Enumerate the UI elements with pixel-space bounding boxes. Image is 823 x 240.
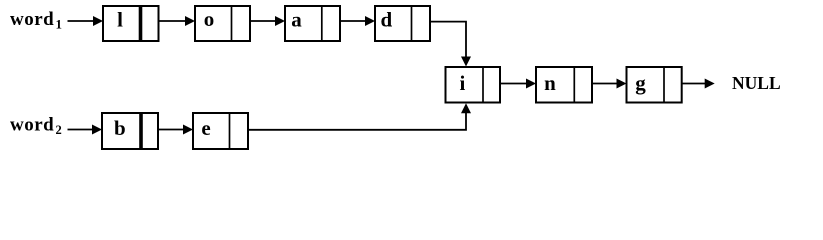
svg-text:d: d bbox=[380, 8, 392, 32]
wire word2 to node b bbox=[68, 125, 103, 135]
wire node d to node i (right then down) bbox=[430, 22, 471, 67]
svg-text:word: word bbox=[10, 9, 54, 30]
wire word1 to node l bbox=[68, 16, 104, 26]
svg-text:NULL: NULL bbox=[732, 73, 781, 93]
svg-text:o: o bbox=[204, 7, 215, 31]
wire node i to node n bbox=[500, 79, 536, 89]
svg-text:b: b bbox=[114, 116, 126, 140]
wire node l to node o bbox=[159, 16, 196, 26]
svg-text:g: g bbox=[635, 71, 646, 95]
svg-text:e: e bbox=[201, 116, 210, 140]
node a bbox=[285, 6, 340, 41]
node b bbox=[102, 113, 158, 149]
svg-text:1: 1 bbox=[56, 17, 63, 32]
wire node n to node g bbox=[592, 79, 627, 89]
label word1 bbox=[10, 9, 62, 32]
node e bbox=[193, 113, 248, 149]
node o bbox=[195, 6, 250, 41]
wire node b to node e bbox=[158, 125, 193, 135]
node l bbox=[103, 6, 159, 41]
wire node a to node d bbox=[340, 16, 375, 26]
label word2 bbox=[10, 115, 62, 137]
node i bbox=[446, 67, 501, 103]
svg-text:i: i bbox=[459, 71, 465, 95]
node n bbox=[536, 67, 592, 103]
svg-text:a: a bbox=[291, 8, 302, 32]
text NULL bbox=[732, 73, 781, 93]
wire node o to node a bbox=[250, 16, 285, 26]
svg-text:word: word bbox=[10, 115, 54, 136]
svg-text:2: 2 bbox=[56, 123, 62, 137]
svg-text:l: l bbox=[117, 8, 123, 32]
wire node g to NULL bbox=[682, 79, 715, 89]
svg-text:n: n bbox=[544, 71, 556, 95]
node g bbox=[627, 67, 682, 103]
wire node e to node i (right then up) bbox=[248, 103, 471, 130]
node d bbox=[375, 6, 430, 41]
